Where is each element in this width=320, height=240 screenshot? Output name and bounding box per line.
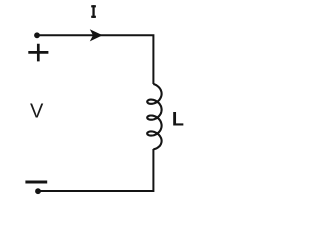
svg-text:V: V: [30, 100, 44, 122]
node bottom terminal dot: [35, 188, 41, 194]
inductor L1 coil: [147, 84, 161, 149]
wire bottom: [38, 149, 153, 191]
plus symbol of source V: [28, 44, 48, 62]
node top terminal dot: [34, 32, 40, 38]
wire top: [37, 35, 153, 84]
current arrowhead: [90, 29, 103, 41]
minus symbol of source V: [25, 181, 47, 184]
label I (serifed, drawn): [91, 5, 96, 18]
svg-text:L: L: [172, 109, 184, 131]
